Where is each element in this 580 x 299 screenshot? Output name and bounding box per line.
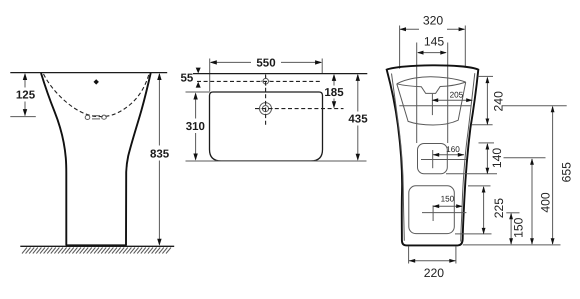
145 extension lines xyxy=(416,43,418,144)
mounting hole 2 xyxy=(409,186,455,234)
dim 55 arrows xyxy=(196,68,201,74)
svg-text:220: 220 xyxy=(424,266,445,280)
svg-text:205: 205 xyxy=(450,91,464,100)
vertical dashed centerline xyxy=(265,75,267,128)
dim 400 xyxy=(504,157,546,159)
dim 145 line xyxy=(418,52,446,54)
svg-text:400: 400 xyxy=(539,192,553,213)
dim 835 line xyxy=(158,74,160,146)
dim 240 xyxy=(486,78,488,125)
svg-text:655: 655 xyxy=(560,162,574,183)
svg-text:225: 225 xyxy=(492,198,506,219)
extension baseline right xyxy=(463,244,561,246)
dim 225 xyxy=(483,187,485,234)
extension line bowl bottom right xyxy=(472,124,493,126)
svg-text:145: 145 xyxy=(424,34,445,48)
hole 2 crosshair xyxy=(422,212,466,214)
svg-text:140: 140 xyxy=(490,148,504,169)
basin outline xyxy=(41,73,151,245)
pedestal bottom edge xyxy=(66,244,127,246)
dashed overflow axis line xyxy=(197,80,321,82)
dim 140 xyxy=(486,144,488,173)
dim 310 line xyxy=(195,94,197,119)
extension line hole1 top xyxy=(479,142,495,144)
svg-text:320: 320 xyxy=(423,13,444,27)
320 extension lines xyxy=(399,26,401,69)
svg-text:150: 150 xyxy=(512,217,526,238)
pedestal body outline xyxy=(387,65,479,245)
bowl crosshair xyxy=(431,94,433,115)
faucet hole double circle xyxy=(258,101,273,116)
dashed bowl inner line xyxy=(44,74,149,117)
deck top extension to left xyxy=(186,91,210,93)
inner wall lines xyxy=(392,74,405,241)
dim 160 line xyxy=(433,154,464,156)
extension line 655 top xyxy=(502,105,566,107)
svg-text:125: 125 xyxy=(16,90,36,102)
ground hatching xyxy=(22,248,171,254)
dim 205 line xyxy=(432,99,472,101)
svg-text:150: 150 xyxy=(441,194,455,203)
deck rounded outline xyxy=(210,92,323,161)
svg-text:185: 185 xyxy=(324,87,344,99)
dim 185 line xyxy=(333,75,335,86)
dim 550 line xyxy=(211,61,251,63)
dim 435 line xyxy=(357,75,359,112)
extension line hole2 top xyxy=(468,185,491,187)
bowl rim lens upper arc xyxy=(397,77,466,84)
top rim line xyxy=(10,72,167,74)
extension line top edge right xyxy=(478,75,493,77)
dim 125 bottom extension xyxy=(10,116,36,118)
extension line hole2 bottom xyxy=(455,233,492,235)
svg-text:435: 435 xyxy=(348,114,368,126)
diamond mark xyxy=(94,79,99,84)
dim 150 vertical xyxy=(510,214,512,244)
bowl body sides and bottom xyxy=(397,82,466,125)
svg-text:835: 835 xyxy=(150,148,170,160)
dim 125 line xyxy=(24,74,26,88)
bowl rim lens lower arc with notch xyxy=(397,82,466,93)
top edge line xyxy=(193,73,367,75)
overflow slot (dashed detail) xyxy=(85,115,106,119)
dim 220 line xyxy=(409,260,456,262)
ground line xyxy=(20,245,174,247)
svg-text:240: 240 xyxy=(492,91,506,112)
dim 655 xyxy=(552,107,554,244)
hole 1 crosshair xyxy=(421,159,466,161)
dim 320 line xyxy=(400,28,419,30)
extension line hole2 center xyxy=(506,212,519,214)
overflow hole small circle xyxy=(261,77,270,86)
550 extension lines xyxy=(209,59,211,92)
dim 150 line (hole 2) xyxy=(433,205,463,207)
svg-text:550: 550 xyxy=(256,58,275,70)
deck bottom extension line xyxy=(186,160,367,162)
svg-text:55: 55 xyxy=(181,73,194,85)
svg-text:160: 160 xyxy=(446,145,460,154)
dim 220 extension lines xyxy=(408,247,410,264)
svg-text:310: 310 xyxy=(186,121,205,133)
extension line hole1 bottom xyxy=(446,173,497,175)
horizontal dashed faucet line xyxy=(255,108,344,110)
mounting hole 1 xyxy=(418,144,448,174)
